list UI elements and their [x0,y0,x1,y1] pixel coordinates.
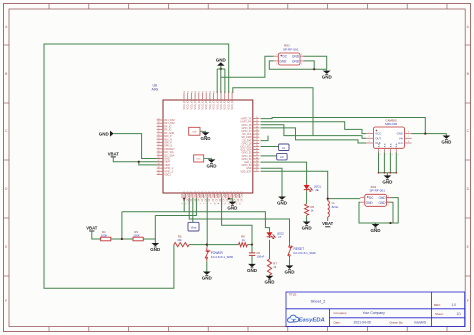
wire [261,155,277,157]
svg-text:6: 6 [200,203,202,204]
resistor R41 SP-RF-001 [360,185,391,207]
svg-text:Vbat: Vbat [191,226,197,230]
svg-text:GND: GND [227,206,238,211]
wire [327,217,329,220]
node GND bar top [220,68,222,70]
svg-text:50: 50 [158,151,160,153]
svg-text:VBAT: VBAT [86,225,98,230]
svg-text:49: 49 [158,154,160,156]
diode LED1 [304,184,322,192]
wire [113,158,163,161]
svg-text:35: 35 [256,164,258,166]
svg-text:GPIO_IO: GPIO_IO [204,192,207,202]
wire [189,198,289,243]
svg-text:62: 62 [188,91,190,93]
svg-text:45: 45 [158,167,160,169]
svg-text:GND: GND [207,163,218,168]
svg-text:14: 14 [229,203,231,205]
node R4/R3 junction [121,238,123,240]
svg-text:REV:: REV: [434,303,441,307]
ground below POWER [202,271,213,281]
wire [92,232,101,239]
wire [44,44,229,288]
svg-text:GPIO_IO: GPIO_IO [186,192,189,202]
svg-text:K2-3.6×6.1_SMD: K2-3.6×6.1_SMD [294,251,316,255]
wire [217,69,225,93]
wire [412,133,447,135]
wire [111,238,133,240]
svg-text:11: 11 [218,203,220,205]
ground at R41 [371,223,382,233]
svg-text:Sheet:: Sheet: [435,312,444,316]
svg-text:GPIO_IO: GPIO_IO [236,192,239,202]
svg-text:VBAT: VBAT [108,151,120,156]
svg-text:4: 4 [379,154,381,155]
resistor R4 200K [101,230,111,241]
switch POWER [205,247,233,261]
svg-text:GND: GND [302,225,313,230]
svg-text:GPIO_IO: GPIO_IO [225,192,228,202]
svg-text:82nH: 82nH [332,205,339,209]
svg-text:marvin6: marvin6 [414,320,426,324]
svg-text:8: 8 [408,132,409,134]
diode LED2 [267,231,285,239]
svg-text:GND: GND [379,196,387,200]
ground below R7 [265,275,276,285]
node VBAT branch [138,161,140,163]
wire [261,122,367,134]
svg-text:GPIO_IO: GPIO_IO [214,192,217,202]
svg-text:GND: GND [247,268,258,273]
svg-text:GND: GND [441,139,452,144]
svg-text:DC: DC [369,196,374,200]
wire [387,202,393,223]
wire [222,198,252,252]
svg-text:65: 65 [199,91,201,93]
connector U9 CAM500 [366,118,411,154]
svg-text:GND: GND [322,75,333,80]
svg-text:VDD_IO: VDD_IO [220,100,223,109]
svg-text:4: 4 [193,203,195,204]
svg-text:2: 2 [363,205,364,207]
wire [233,88,313,136]
svg-text:48: 48 [158,157,160,159]
net VBAT (bottom left) [86,225,98,231]
svg-text:8: 8 [207,203,209,204]
wire [261,168,283,195]
svg-text:VDD_IO: VDD_IO [198,100,201,109]
svg-text:1.0: 1.0 [452,303,457,307]
svg-text:VDD_IO: VDD_IO [205,100,208,109]
wire [261,136,269,141]
svg-text:16: 16 [236,203,238,205]
svg-text:GND: GND [285,269,296,274]
svg-text:58: 58 [158,125,160,127]
ground below U8 bottom pins [227,201,238,211]
svg-text:2E: 2E [315,188,319,192]
svg-text:VDD_IO: VDD_IO [187,100,190,109]
svg-text:VDD_IO: VDD_IO [209,100,212,109]
svg-text:GPIO_IO: GPIO_IO [211,192,214,202]
svg-text:68: 68 [210,91,212,93]
svg-text:Company:: Company: [334,311,348,315]
wire [247,244,252,246]
svg-text:VCC: VCC [375,132,381,136]
svg-text:GND: GND [292,60,300,64]
resistor R8 1k (LED1) [305,204,315,215]
svg-text:GPIO_IO: GPIO_IO [240,192,243,202]
svg-text:1: 1 [182,203,184,204]
ground internal 1 [201,131,212,141]
node U8 pin bottom gnd [228,198,230,200]
svg-text:28: 28 [256,142,258,144]
svg-text:21: 21 [256,120,258,122]
svg-text:73: 73 [228,91,230,93]
svg-text:A-C: A-C [398,141,403,145]
svg-text:GND: GND [216,58,227,63]
svg-text:SP-RF-001: SP-RF-001 [369,189,385,193]
svg-text:A9G: A9G [152,88,159,92]
wire [328,198,361,200]
svg-text:GPIO_IO: GPIO_IO [200,192,203,202]
svg-text:27: 27 [256,139,258,141]
svg-text:ADC1: ADC1 [164,174,171,177]
svg-text:23: 23 [256,126,258,128]
svg-text:33: 33 [256,157,258,159]
resistor R7 1k (LED2) [267,259,277,275]
wire [269,61,326,69]
resistor R3 100K [133,230,143,241]
svg-text:46: 46 [158,163,160,165]
wire [122,212,270,231]
svg-text:20: 20 [256,117,258,119]
node port Vbat [188,222,199,231]
ground right of CAM500 [441,135,452,145]
svg-text:29: 29 [256,145,258,147]
svg-text:2021-04-05: 2021-04-05 [354,320,371,324]
wire [306,215,308,220]
svg-text:10k: 10k [177,238,182,242]
svg-text:SP-RF-001: SP-RF-001 [283,47,299,51]
svg-text:59: 59 [158,122,160,124]
node R01 gnd loop [313,68,315,70]
svg-text:5: 5 [196,203,198,204]
wire [261,128,367,143]
svg-text:TITLE:: TITLE: [289,293,298,297]
svg-text:17: 17 [278,235,282,239]
ground below C6 [247,263,258,273]
svg-text:GPIO_IO: GPIO_IO [218,192,221,202]
resistor R5 10k [174,235,189,247]
svg-text:43: 43 [158,173,160,175]
wire [183,198,185,212]
ground below RESET [285,264,296,274]
svg-text:44: 44 [158,170,160,172]
svg-text:37: 37 [256,170,258,172]
svg-text:CL: CL [282,146,286,150]
svg-text:GPIO_IO: GPIO_IO [189,192,192,202]
wire [445,133,447,136]
svg-text:24: 24 [256,129,258,131]
svg-text:GPIO_IO: GPIO_IO [193,192,196,202]
wire [121,212,123,239]
svg-text:52: 52 [158,144,160,146]
svg-text:VDD_IO: VDD_IO [183,100,186,109]
svg-text:A-A: A-A [383,143,386,147]
ground below R3 [150,242,161,252]
svg-text:100nF: 100nF [256,255,264,259]
svg-text:7: 7 [408,136,409,138]
ground below CAM500 [382,174,393,184]
svg-text:F: F [467,299,469,303]
capacitor X1 internal [189,127,206,135]
ground right-side net [277,196,288,206]
svg-text:GPIO_IO: GPIO_IO [182,192,185,202]
svg-text:36: 36 [256,167,258,169]
wire [143,238,155,240]
svg-text:60: 60 [158,118,160,120]
svg-text:22: 22 [256,123,258,125]
svg-text:63: 63 [191,91,193,93]
svg-text:GND: GND [277,200,288,205]
svg-text:7: 7 [204,203,206,204]
svg-text:2: 2 [276,63,277,65]
svg-text:GND: GND [279,60,287,64]
svg-text:5: 5 [384,154,386,155]
svg-text:26: 26 [256,136,258,138]
ground above U8 [216,58,227,69]
svg-text:U6C: U6C [197,159,202,161]
svg-text:74: 74 [232,91,234,93]
inductor L1 82nH [328,201,339,217]
wire [261,118,426,134]
node port AX [277,153,287,160]
svg-text:K2-3.6×6.1_SMD: K2-3.6×6.1_SMD [211,255,233,259]
svg-text:4: 4 [301,54,302,56]
wire [261,171,328,200]
svg-text:15: 15 [232,203,234,205]
svg-text:F: F [5,299,7,303]
svg-text:Your Company: Your Company [363,311,386,315]
svg-text:VDD_IO: VDD_IO [202,100,205,109]
svg-text:13: 13 [225,203,227,205]
title block [286,292,465,327]
svg-text:10: 10 [214,203,216,205]
svg-text:VDD_IO: VDD_IO [231,100,234,109]
svg-text:1: 1 [369,132,370,134]
svg-text:2: 2 [186,203,188,204]
wire [206,198,208,247]
svg-text:56: 56 [158,131,160,133]
svg-text:69: 69 [214,91,216,93]
svg-text:55: 55 [158,134,160,136]
op-amp U8 A9G module [152,84,260,205]
node R41 loop [389,222,391,224]
svg-text:3: 3 [189,203,191,204]
node port CL [279,144,289,151]
wire [139,162,163,165]
svg-text:32: 32 [256,154,258,156]
wire [269,240,271,259]
svg-text:VDD_IO: VDD_IO [190,100,193,109]
wire [379,152,397,172]
svg-text:GND: GND [292,55,300,59]
svg-text:EasyEDA: EasyEDA [299,318,325,324]
capacitor C6 100nF [249,245,265,259]
svg-text:6: 6 [408,141,409,143]
svg-text:31: 31 [256,151,258,153]
svg-text:7: 7 [396,154,398,155]
wire [229,198,233,201]
svg-text:GND: GND [371,228,382,233]
node POWER tap [206,244,208,246]
svg-text:51: 51 [158,147,160,149]
resistor R6 1k [239,235,248,247]
svg-text:25: 25 [256,133,258,135]
svg-text:U6B: U6B [192,131,197,133]
svg-text:61: 61 [184,91,186,93]
svg-text:GPIO_IO: GPIO_IO [207,192,210,202]
svg-text:GND: GND [202,275,213,280]
ground at R01 [322,70,333,80]
node U8 pin bottom left [183,198,185,200]
wire [303,56,326,69]
svg-text:VDD_IO: VDD_IO [213,100,216,109]
wire [154,239,156,242]
svg-text:2: 2 [369,136,370,138]
svg-text:GND: GND [265,280,276,285]
svg-text:4: 4 [388,196,389,198]
svg-text:GND: GND [150,247,161,252]
wire [306,191,308,204]
wire [289,259,291,265]
svg-text:GPIO_IO: GPIO_IO [232,192,235,202]
svg-text:VDD_IO: VDD_IO [224,100,227,109]
svg-text:100K: 100K [133,233,140,237]
svg-text:71: 71 [221,91,223,93]
svg-text:12: 12 [222,203,224,205]
wire [221,56,274,77]
svg-text:200K: 200K [101,233,108,237]
net VBAT (below L1) [322,220,334,227]
switch RESET [288,243,316,259]
svg-text:VDD_IO: VDD_IO [216,100,219,109]
svg-text:A-A: A-A [395,143,398,147]
svg-text:9: 9 [211,203,213,204]
svg-text:53: 53 [158,141,160,143]
svg-text:Drawn By:: Drawn By: [390,320,404,324]
svg-text:34: 34 [256,160,258,162]
wire [269,274,271,276]
ground below R6 (LED1) [302,221,313,231]
wire [155,198,196,216]
svg-text:57: 57 [158,128,160,130]
wire [261,162,307,184]
svg-text:67: 67 [206,91,208,93]
svg-text:VBAT: VBAT [322,221,334,226]
svg-text:GND: GND [382,179,393,184]
node CAM500 gnd rail [424,133,426,135]
resistor R01 SP-RF-001 [274,44,305,66]
svg-text:VDD_IO: VDD_IO [227,100,230,109]
svg-text:1: 1 [363,196,364,198]
wire [189,244,238,246]
ground internal 2 [207,158,218,168]
svg-text:66: 66 [202,91,204,93]
svg-text:OUT: OUT [375,136,381,140]
svg-text:Sheet_2: Sheet_2 [311,299,327,304]
wire [359,198,398,223]
svg-text:VDD_IO: VDD_IO [194,100,197,109]
svg-text:1: 1 [276,54,277,56]
wire [154,216,156,240]
svg-text:Date:: Date: [334,320,341,324]
svg-text:GND: GND [99,131,110,136]
net VBAT (left mid) [108,151,120,158]
svg-text:GND: GND [397,132,403,136]
svg-text:GPIO_IO: GPIO_IO [222,192,225,202]
svg-text:6: 6 [390,154,392,155]
wire [261,125,367,139]
wire [251,255,253,263]
svg-text:A-A: A-A [377,143,380,147]
wire [303,61,314,69]
svg-text:47: 47 [158,160,160,162]
svg-text:GND: GND [366,201,374,205]
node CAM500 bottom pins [378,172,398,174]
svg-text:GPIO_IO: GPIO_IO [196,192,199,202]
wire [261,146,279,148]
svg-text:VH: VH [399,136,403,140]
svg-text:GPIO_IO: GPIO_IO [229,192,232,202]
svg-text:SMN-005: SMN-005 [385,122,398,126]
wire [114,134,163,159]
svg-text:AX: AX [280,155,284,159]
svg-text:A-A: A-A [389,143,392,147]
svg-text:3: 3 [369,141,370,143]
svg-text:GND: GND [201,136,212,141]
wire [386,173,388,175]
svg-text:GND: GND [379,201,387,205]
svg-text:DC: DC [283,55,288,59]
svg-text:54: 54 [158,138,160,140]
svg-text:30: 30 [256,148,258,150]
node C6 tap [251,244,253,246]
svg-text:72: 72 [225,91,227,93]
svg-text:VDD_EXT: VDD_EXT [240,170,252,173]
svg-text:3: 3 [301,63,302,65]
svg-text:1/1: 1/1 [457,312,462,316]
ground left of U8 [99,131,114,137]
svg-text:70: 70 [217,91,219,93]
wire [206,261,208,270]
node L1/R41 [327,198,329,200]
svg-text:64: 64 [195,91,197,93]
svg-text:17: 17 [240,203,242,205]
svg-text:3: 3 [388,205,389,207]
wire [192,198,194,222]
capacitor X2 internal [194,155,212,162]
